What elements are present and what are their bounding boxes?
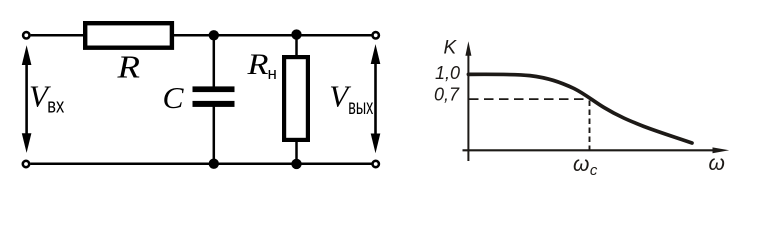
resistor R body [85, 23, 172, 48]
wire: capacitor bottom lead [213, 107, 216, 164]
terminal: input bottom [23, 161, 29, 167]
svg-text:вых: вых [348, 96, 373, 119]
svg-text:ωс: ωс [573, 153, 598, 179]
svg-text:R: R [246, 48, 268, 81]
arrow: Vвых output voltage [371, 44, 381, 153]
terminal: input top [23, 32, 29, 38]
wire: top middle segment [174, 34, 372, 37]
terminal: output top [373, 32, 379, 38]
svg-text:R: R [116, 48, 140, 84]
svg-text:н: н [268, 64, 277, 83]
node: capacitor top junction [209, 30, 219, 40]
node: load top junction [291, 29, 301, 39]
axis: ω horizontal axis with arrow [463, 147, 730, 153]
capacitor C plates [193, 86, 235, 107]
wire: load bottom lead [295, 140, 298, 164]
svg-text:0,7: 0,7 [434, 85, 460, 105]
wire: capacitor top lead [213, 35, 216, 87]
svg-text:C: C [163, 80, 184, 115]
terminal: output bottom [373, 161, 379, 167]
curve: frequency response [468, 74, 692, 143]
svg-text:ω: ω [709, 152, 725, 175]
dashed cutoff line ωc [589, 101, 591, 151]
node: capacitor bottom junction [209, 159, 219, 169]
svg-text:K: K [444, 38, 458, 59]
arrow: Vвх input voltage [22, 45, 32, 153]
dashed level line 0.7 [469, 98, 589, 100]
wire: top left segment [31, 34, 84, 37]
svg-text:вх: вх [47, 96, 64, 118]
node: load bottom junction [291, 159, 301, 169]
wire: load top lead [295, 35, 298, 57]
axis: K vertical axis with arrow [465, 41, 471, 161]
wire: bottom rail [30, 162, 372, 165]
resistor Rн body [284, 57, 308, 140]
svg-text:1,0: 1,0 [435, 63, 460, 83]
